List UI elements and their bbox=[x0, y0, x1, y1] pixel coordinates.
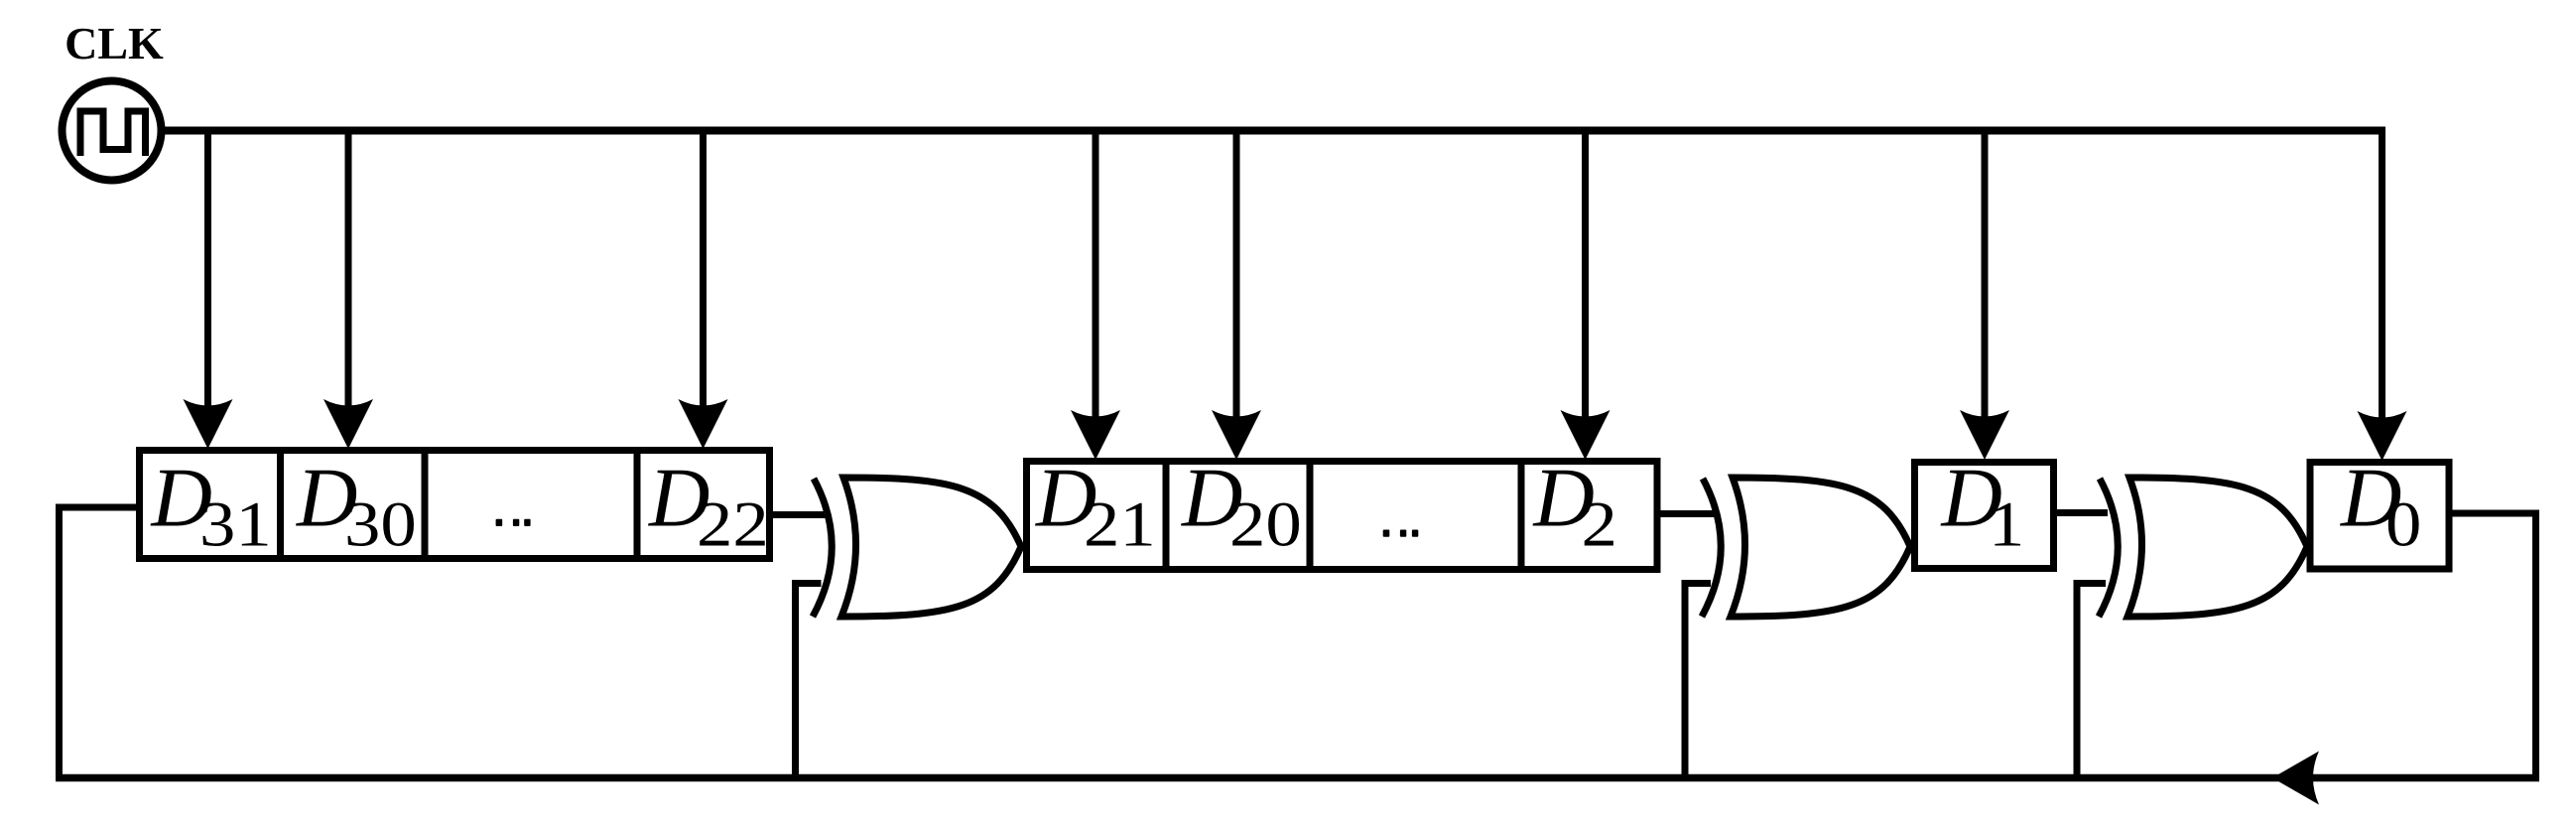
label D31 bbox=[151, 452, 272, 560]
flip-flop D0 box bbox=[2310, 463, 2449, 570]
wire D0 output to feedback drop bbox=[2446, 513, 2536, 778]
arrowhead into D30 bbox=[323, 399, 373, 449]
svg-text:20: 20 bbox=[1229, 488, 1302, 560]
XOR gate 1 input arc bbox=[813, 479, 832, 617]
XOR gate 1 body bbox=[841, 478, 1021, 617]
wire clock drop to D0 bbox=[2379, 127, 2385, 440]
divider D20|... bbox=[1307, 458, 1314, 573]
wire XOR1 lower input from feedback bbox=[796, 584, 822, 778]
feedback left riser into D31 bbox=[60, 507, 140, 778]
svg-text:31: 31 bbox=[199, 488, 272, 560]
svg-text:0: 0 bbox=[2385, 488, 2421, 560]
divider D31|D30 bbox=[277, 447, 284, 562]
XOR gate 3 body bbox=[2127, 478, 2307, 617]
label D2 bbox=[1533, 452, 1617, 560]
divider ...|D2 bbox=[1518, 458, 1525, 573]
clock source square-wave glyph bbox=[80, 111, 146, 156]
divider D30|... bbox=[422, 447, 429, 562]
wire XOR3 lower input from feedback bbox=[2077, 584, 2106, 778]
label D20 bbox=[1181, 452, 1302, 560]
label D30 bbox=[296, 452, 417, 560]
label D21 bbox=[1035, 452, 1156, 560]
arrowhead into D2 bbox=[1561, 410, 1610, 460]
XOR gate 3 input arc bbox=[2099, 479, 2118, 617]
svg-text:22: 22 bbox=[697, 488, 769, 560]
register group D21..D2 box bbox=[1027, 462, 1658, 570]
wire clock drop to D2 bbox=[1582, 134, 1589, 438]
arrowhead into D1 bbox=[1960, 410, 2009, 460]
clock rail wire bbox=[161, 127, 2383, 135]
clock source circle bbox=[63, 81, 162, 181]
wire D1 to XOR3 bbox=[2057, 509, 2108, 516]
ellipsis dots group 2 bbox=[1383, 530, 1419, 537]
svg-text:CLK: CLK bbox=[64, 18, 164, 69]
arrowhead into D21 bbox=[1071, 410, 1120, 460]
arrowhead into D20 bbox=[1212, 410, 1261, 460]
arrowhead into D31 bbox=[184, 399, 233, 449]
svg-text:30: 30 bbox=[344, 488, 417, 560]
wire D22 to XOR1 bbox=[773, 511, 826, 518]
divider ...|D22 bbox=[634, 447, 641, 562]
svg-text:1: 1 bbox=[1989, 488, 2024, 560]
wire clock drop to D31 bbox=[204, 134, 211, 427]
divider D21|D20 bbox=[1163, 458, 1170, 573]
wire clock drop to D22 bbox=[700, 134, 707, 427]
wire clock drop to D20 bbox=[1233, 134, 1240, 438]
wire clock drop to D30 bbox=[345, 134, 352, 427]
XOR gate 2 body bbox=[1731, 478, 1910, 617]
ellipsis dots group 1 bbox=[496, 519, 531, 526]
register group D31..D22 box bbox=[140, 451, 770, 559]
feedback arrowhead on bottom rail bbox=[2272, 752, 2319, 805]
arrowhead into D22 bbox=[679, 399, 728, 449]
feedback bottom rail bbox=[56, 774, 2539, 782]
label D0 bbox=[2340, 452, 2421, 560]
wire clock drop to D21 bbox=[1093, 134, 1099, 438]
arrowhead into D0 bbox=[2358, 411, 2407, 461]
XOR gate 2 input arc bbox=[1702, 479, 1721, 617]
svg-text:21: 21 bbox=[1084, 488, 1156, 560]
label D22 bbox=[648, 452, 769, 560]
flip-flop D1 box bbox=[1915, 463, 2054, 569]
svg-text:2: 2 bbox=[1582, 488, 1617, 560]
wire XOR2 lower input from feedback bbox=[1685, 584, 1711, 778]
wire clock drop to D1 bbox=[1982, 134, 1989, 438]
label D1 bbox=[1941, 452, 2025, 560]
wire D2 to XOR2 bbox=[1660, 510, 1715, 517]
